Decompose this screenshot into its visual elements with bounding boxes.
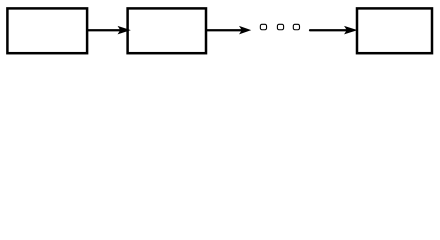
box 2 — [128, 8, 206, 53]
dot 2 — [277, 24, 283, 29]
arrowhead 2 — [240, 27, 250, 34]
arrowhead 1 — [119, 27, 130, 34]
wire arrow 1 line — [88, 29, 121, 31]
dot 3 — [293, 24, 299, 29]
wire arrow 2 line — [207, 29, 243, 31]
arrowhead 3 — [345, 27, 356, 34]
wire arrow 3 line — [310, 29, 348, 31]
box 1 — [7, 8, 87, 53]
dot 1 — [260, 24, 266, 29]
box 3 — [357, 8, 432, 53]
